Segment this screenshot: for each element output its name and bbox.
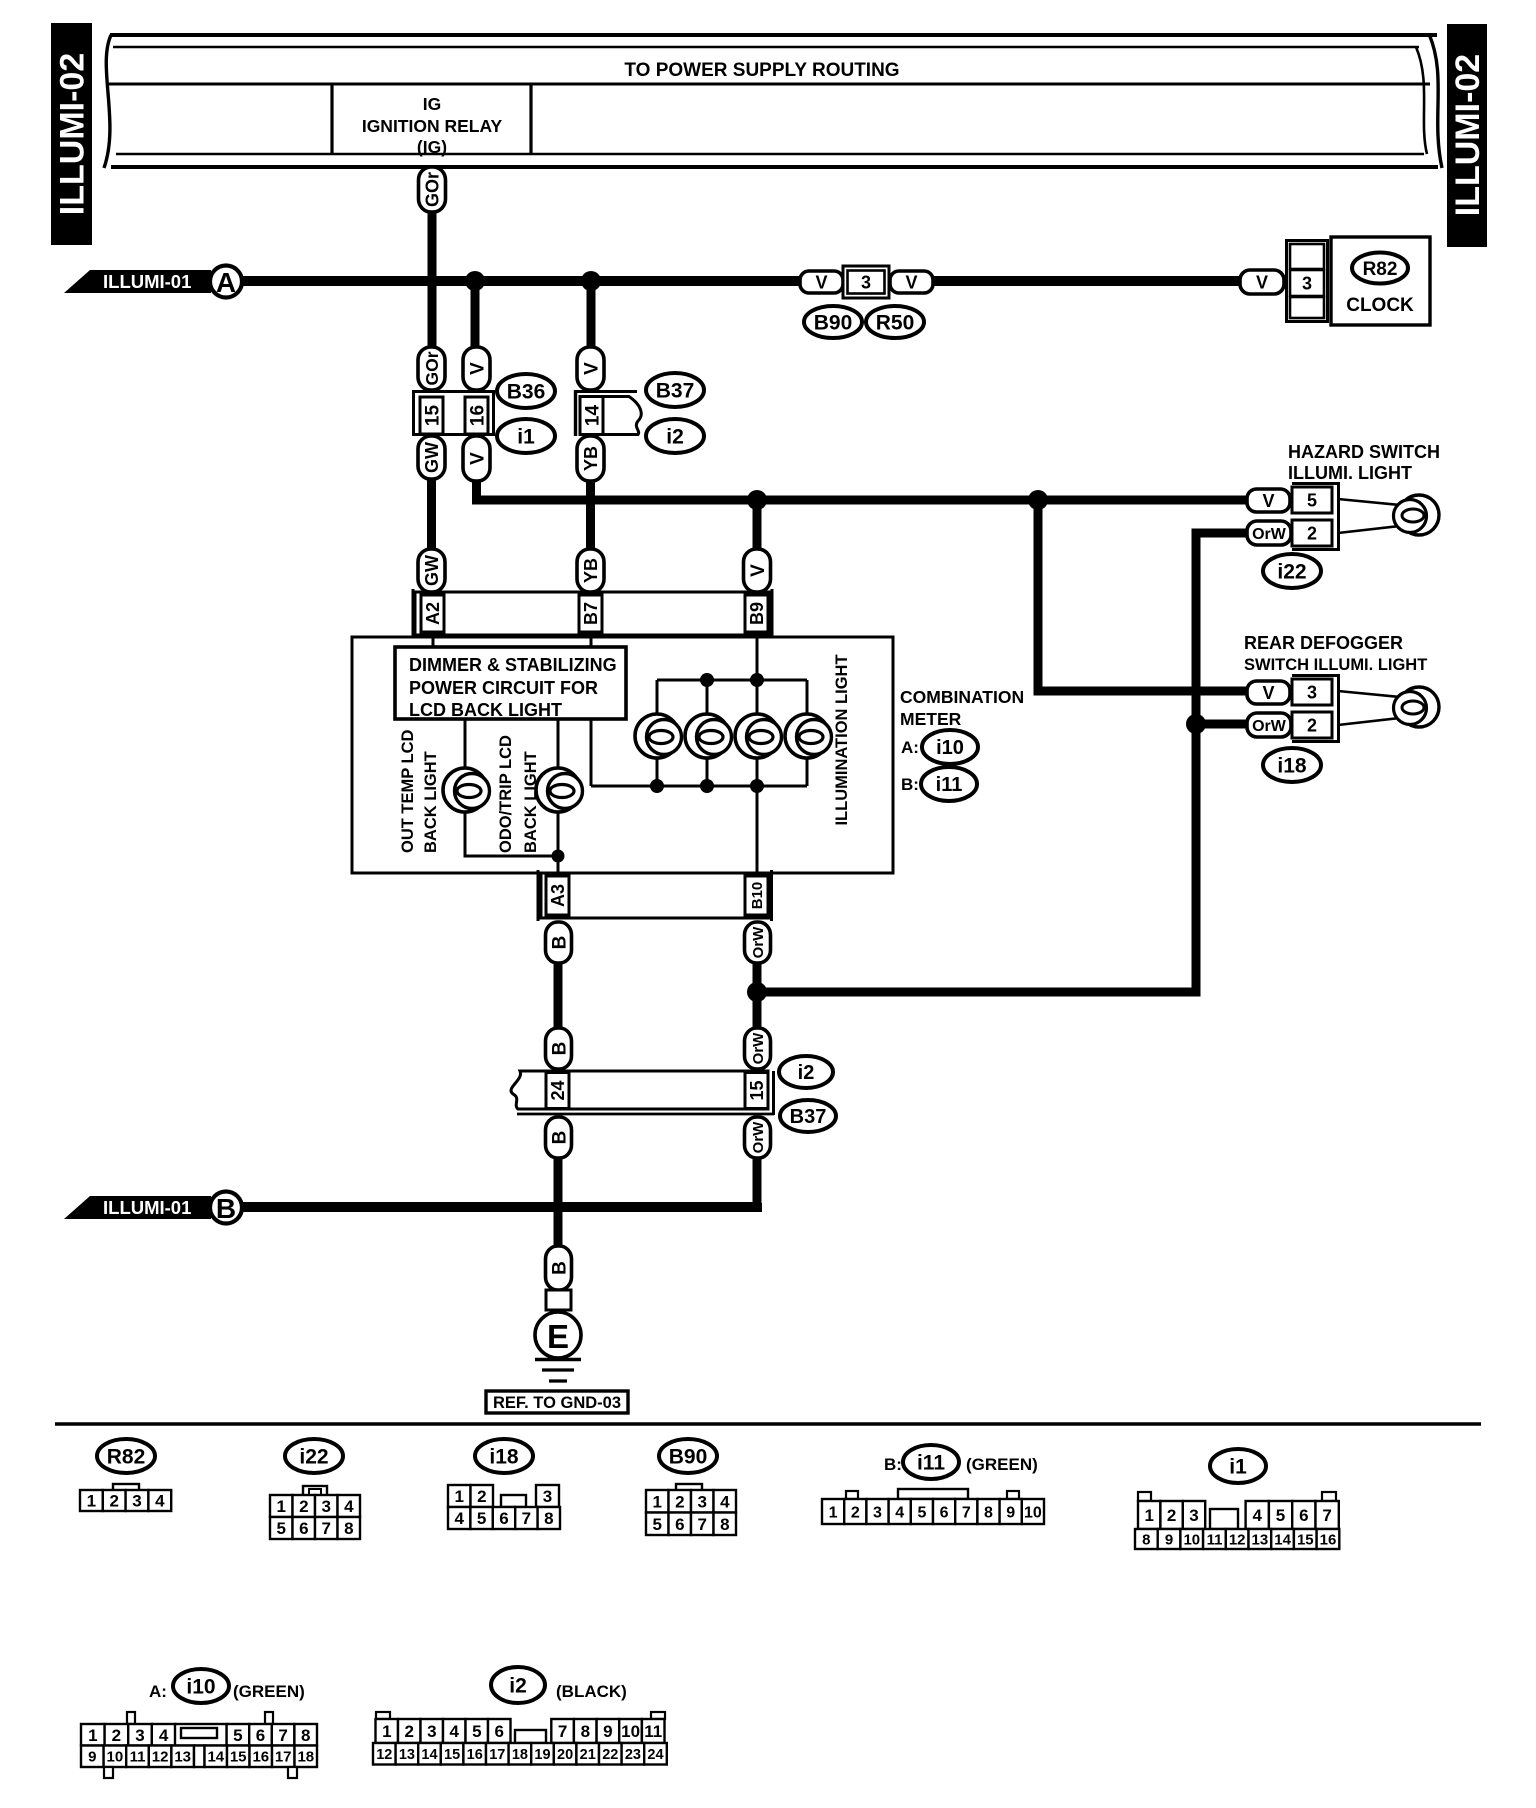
lamp illumination 4	[785, 714, 832, 758]
svg-text:V: V	[467, 452, 488, 465]
svg-text:R82: R82	[1363, 259, 1398, 280]
svg-text:3: 3	[1189, 1506, 1198, 1525]
wire illumination lamp 1 leads	[656, 680, 659, 786]
svg-text:ILLUMI-01: ILLUMI-01	[103, 271, 191, 292]
svg-text:(IG): (IG)	[417, 137, 447, 157]
svg-text:2: 2	[851, 1504, 860, 1521]
ground symbol	[535, 1360, 581, 1382]
svg-text:A: A	[216, 267, 236, 298]
svg-text:3: 3	[697, 1492, 706, 1511]
svg-text:6: 6	[299, 1519, 308, 1538]
svg-text:2: 2	[299, 1497, 308, 1516]
page title bar left ILLUMI-02	[51, 23, 92, 245]
svg-text:2: 2	[477, 1487, 486, 1506]
svg-text:11: 11	[644, 1722, 662, 1741]
connector id oval R82 at clock	[1352, 253, 1408, 284]
connector i2/B37 body (torn edge)	[511, 1071, 774, 1115]
svg-text:B37: B37	[790, 1106, 827, 1128]
wire V stub from bus A to B36 pin 16	[471, 281, 480, 352]
svg-text:2: 2	[1307, 523, 1317, 543]
svg-text:8: 8	[344, 1519, 353, 1538]
wire OrW down to bus B	[753, 1158, 762, 1207]
pin 3 of defogger connector	[1292, 679, 1332, 705]
lamp hazard switch illumination	[1394, 495, 1440, 535]
svg-text:14: 14	[582, 405, 603, 427]
wire bus A from flag to connector B90	[242, 276, 801, 286]
svg-text:B:: B:	[901, 775, 919, 794]
ignition relay segment IG	[332, 84, 531, 157]
wire pin B9 to illumination lamps	[756, 635, 759, 682]
svg-text:5: 5	[1276, 1506, 1285, 1525]
svg-text:(GREEN): (GREEN)	[966, 1455, 1038, 1474]
svg-text:METER: METER	[900, 709, 962, 729]
wire OrW bus to switch illumination lights	[757, 533, 1248, 992]
svg-text:R82: R82	[107, 1446, 146, 1469]
svg-text:22: 22	[602, 1747, 618, 1763]
svg-text:9: 9	[88, 1749, 96, 1766]
connector id oval B90	[804, 306, 862, 338]
svg-text:3: 3	[132, 1492, 141, 1511]
connector id oval i22	[1263, 554, 1321, 588]
junction on bus A at x475	[465, 271, 485, 291]
junction top bus lamp3 feed B9	[750, 673, 764, 687]
connector pinout i11 (meter B)	[884, 1455, 1038, 1474]
svg-text:3: 3	[427, 1722, 436, 1741]
connector id oval B37 lower	[780, 1100, 836, 1132]
illumination lamp bottom bus	[591, 785, 807, 788]
svg-text:i18: i18	[1277, 755, 1307, 778]
connector pinout i2 (black)	[491, 1667, 545, 1703]
svg-text:6: 6	[499, 1509, 508, 1528]
svg-text:BACK LIGHT: BACK LIGHT	[422, 751, 440, 853]
svg-text:1: 1	[87, 1492, 96, 1511]
svg-text:4: 4	[344, 1497, 354, 1516]
svg-text:B37: B37	[656, 380, 695, 403]
svg-text:8: 8	[581, 1722, 590, 1741]
svg-text:3: 3	[543, 1487, 552, 1506]
svg-text:6: 6	[940, 1504, 949, 1521]
svg-text:B9: B9	[747, 602, 767, 625]
pin B9 of meter connector	[745, 595, 768, 632]
wire colour label OrW at defogger pin 2	[1247, 713, 1291, 737]
svg-text:15: 15	[747, 1080, 767, 1100]
svg-text:10: 10	[107, 1749, 124, 1766]
connector id oval B37	[646, 373, 704, 407]
svg-text:7: 7	[962, 1504, 971, 1521]
page title bar right ILLUMI-02	[1447, 24, 1487, 247]
wire colour label YB below B37 pin 14	[577, 436, 604, 481]
svg-text:1: 1	[1144, 1506, 1153, 1525]
junction OrW branch to rear defogger	[1186, 714, 1206, 734]
svg-text:2: 2	[112, 1726, 121, 1745]
svg-text:11: 11	[1207, 1531, 1223, 1548]
flag ILLUMI-01 node A	[64, 266, 242, 299]
wire V stub from bus A to B37 pin 14	[587, 281, 596, 352]
svg-text:5: 5	[652, 1515, 661, 1534]
connector row meter A3-B10	[538, 870, 772, 921]
wire B10 return from bottom bus	[756, 786, 759, 873]
wire colour label V at clock	[1240, 270, 1284, 294]
svg-text:2: 2	[675, 1492, 684, 1511]
svg-text:A3: A3	[548, 884, 568, 907]
svg-text:V: V	[905, 272, 917, 292]
wire OrW branch to rear defogger	[1196, 720, 1248, 729]
pin A2 of meter connector	[421, 595, 444, 632]
svg-text:i1: i1	[1229, 1456, 1247, 1479]
junction OrW bus	[747, 982, 767, 1002]
wire dimmer output to odo-trip lcd back light	[557, 719, 560, 873]
pin B7 of meter connector	[579, 595, 602, 632]
svg-text:3: 3	[135, 1726, 144, 1745]
svg-text:B: B	[549, 1261, 570, 1275]
connector id oval i2	[646, 419, 704, 453]
svg-text:GOr: GOr	[422, 172, 442, 207]
svg-text:V: V	[1256, 272, 1268, 292]
svg-text:SWITCH ILLUMI. LIGHT: SWITCH ILLUMI. LIGHT	[1244, 656, 1427, 674]
svg-text:COMBINATION: COMBINATION	[900, 687, 1024, 707]
svg-text:4: 4	[449, 1722, 459, 1741]
wire colour label OrW at hazard pin 2	[1247, 521, 1291, 545]
svg-text:V: V	[748, 564, 769, 577]
svg-text:i2: i2	[798, 1062, 815, 1084]
svg-text:i1: i1	[517, 426, 535, 449]
svg-text:REF. TO GND-03: REF. TO GND-03	[493, 1394, 621, 1412]
svg-text:8: 8	[1142, 1531, 1150, 1548]
wire pin A2 into dimmer circuit	[432, 635, 435, 648]
lamp odo/trip lcd back light	[536, 768, 583, 812]
svg-text:9: 9	[1165, 1531, 1173, 1548]
svg-text:B90: B90	[814, 312, 853, 335]
wire colour label OrW below meter pin B10	[745, 922, 771, 963]
svg-text:DIMMER & STABILIZING: DIMMER & STABILIZING	[409, 655, 617, 675]
terminal GOr at ignition relay output	[419, 167, 446, 212]
connector rear defogger body	[1292, 676, 1339, 742]
svg-text:GW: GW	[422, 555, 442, 586]
connector id oval i2 lower	[779, 1056, 833, 1088]
svg-text:3: 3	[873, 1504, 882, 1521]
svg-text:A:: A:	[901, 738, 919, 757]
pin 15 of connector B36	[420, 397, 443, 434]
svg-text:R50: R50	[876, 312, 915, 335]
svg-text:5: 5	[1307, 490, 1317, 510]
pin 24 of connector i2/B37	[546, 1073, 569, 1109]
junction top bus lamp2	[700, 673, 714, 687]
wire colour label B below i2 pin 24	[546, 1117, 572, 1158]
svg-text:7: 7	[278, 1726, 287, 1745]
svg-text:3: 3	[1302, 273, 1312, 293]
wire colour label B at ground	[546, 1246, 572, 1290]
svg-text:YB: YB	[581, 558, 601, 583]
label REF. TO GND-03	[486, 1391, 628, 1413]
svg-text:5: 5	[917, 1504, 926, 1521]
svg-text:4: 4	[159, 1726, 169, 1745]
label OUT TEMP LCD BACK LIGHT	[399, 729, 440, 853]
svg-text:14: 14	[421, 1747, 437, 1763]
combination meter box	[352, 637, 893, 873]
svg-text:15: 15	[1297, 1531, 1314, 1548]
svg-text:ODO/TRIP LCD: ODO/TRIP LCD	[497, 735, 515, 853]
svg-text:2: 2	[1167, 1506, 1176, 1525]
svg-text:10: 10	[1024, 1504, 1042, 1521]
svg-text:E: E	[547, 1318, 569, 1355]
svg-text:i2: i2	[509, 1675, 527, 1698]
svg-text:OrW: OrW	[750, 926, 767, 959]
svg-text:15: 15	[444, 1747, 460, 1763]
wire dimmer output to out-temp lcd back light	[464, 719, 467, 772]
junction V bus to meter pin B9	[747, 490, 767, 510]
svg-text:GOr: GOr	[422, 351, 442, 385]
label COMBINATION METER	[900, 687, 1024, 794]
svg-text:ILLUMI-02: ILLUMI-02	[54, 53, 92, 215]
svg-text:OrW: OrW	[1252, 526, 1287, 543]
ground eyelet terminal	[546, 1290, 571, 1310]
svg-text:V: V	[815, 272, 827, 292]
svg-text:B10: B10	[749, 882, 766, 910]
svg-text:7: 7	[321, 1519, 330, 1538]
connector id oval i18	[1263, 748, 1321, 782]
svg-text:18: 18	[297, 1749, 314, 1766]
svg-text:13: 13	[1252, 1531, 1269, 1548]
svg-text:A2: A2	[423, 602, 443, 625]
svg-text:1: 1	[88, 1726, 97, 1745]
svg-text:ILLUMI-01: ILLUMI-01	[103, 1197, 191, 1218]
svg-text:2: 2	[1307, 715, 1317, 735]
svg-text:24: 24	[548, 1080, 568, 1100]
svg-text:5: 5	[477, 1509, 486, 1528]
svg-text:16: 16	[252, 1749, 269, 1766]
svg-text:13: 13	[399, 1747, 415, 1763]
pin 16 of connector B36	[465, 397, 488, 434]
wire colour label GOr above B36 pin 15	[418, 347, 445, 390]
svg-text:15: 15	[422, 405, 443, 427]
svg-text:ILLUMINATION LIGHT: ILLUMINATION LIGHT	[833, 654, 851, 825]
svg-text:(BLACK): (BLACK)	[556, 1682, 627, 1701]
svg-text:i10: i10	[936, 737, 964, 759]
wire colour label V at hazard pin 5	[1247, 489, 1290, 512]
wire colour label GW below B36 pin 15	[418, 436, 445, 479]
wire hazard lamp leads	[1338, 499, 1400, 533]
svg-text:8: 8	[301, 1726, 310, 1745]
clock connector pin column	[1287, 241, 1328, 322]
svg-text:POWER CIRCUIT FOR: POWER CIRCUIT FOR	[409, 678, 598, 698]
svg-text:IG: IG	[423, 94, 441, 114]
svg-text:TO POWER SUPPLY ROUTING: TO POWER SUPPLY ROUTING	[624, 60, 899, 81]
svg-text:14: 14	[207, 1749, 224, 1766]
lamp illumination 1	[635, 714, 682, 758]
wire dimmer return to lamp low-side bus	[590, 719, 593, 786]
wire colour label YB at meter pin B7	[577, 549, 604, 592]
svg-text:A:: A:	[149, 1682, 167, 1701]
svg-text:B: B	[549, 936, 570, 950]
wire colour label V at B90	[800, 271, 843, 293]
svg-text:B:: B:	[884, 1455, 902, 1474]
svg-text:8: 8	[544, 1509, 553, 1528]
svg-text:HAZARD SWITCH: HAZARD SWITCH	[1288, 442, 1440, 462]
svg-text:16: 16	[1320, 1531, 1337, 1548]
wire out-temp lamp to junction	[465, 812, 556, 856]
svg-text:10: 10	[1183, 1531, 1200, 1548]
wire GOr from ignition relay	[428, 167, 437, 352]
svg-text:REAR DEFOGGER: REAR DEFOGGER	[1244, 633, 1403, 653]
ground point E	[535, 1312, 581, 1358]
junction bottom bus to B10	[750, 779, 764, 793]
pin 15 of connector i2/B37	[745, 1073, 768, 1109]
connector B37 body (torn edge)	[574, 390, 641, 436]
svg-text:5: 5	[472, 1722, 481, 1741]
connector pinout i22	[285, 1439, 343, 1473]
svg-text:17: 17	[489, 1747, 505, 1763]
svg-text:i18: i18	[489, 1446, 519, 1469]
svg-text:14: 14	[1274, 1531, 1291, 1548]
wire bus A from connector R50 to clock	[932, 276, 1242, 286]
wire YB from B37 to meter pin B7	[586, 481, 595, 552]
svg-text:9: 9	[603, 1722, 612, 1741]
connector hazard switch body	[1292, 484, 1339, 550]
connector row meter A2-B7-B9	[413, 589, 772, 638]
svg-text:3: 3	[861, 272, 871, 292]
svg-text:V: V	[1262, 491, 1274, 511]
wire illumination lamp 3 leads	[756, 680, 759, 786]
junction on bus A at x591	[581, 271, 601, 291]
svg-text:7: 7	[697, 1515, 706, 1534]
svg-text:11: 11	[130, 1749, 146, 1766]
svg-text:4: 4	[720, 1492, 730, 1511]
label HAZARD SWITCH ILLUMI. LIGHT	[1288, 442, 1440, 483]
flag ILLUMI-01 node B	[64, 1192, 242, 1225]
svg-text:4: 4	[454, 1509, 464, 1528]
svg-text:19: 19	[534, 1747, 550, 1763]
svg-text:24: 24	[647, 1747, 663, 1763]
wire colour label V below B36 pin 16	[463, 436, 490, 481]
svg-text:B7: B7	[581, 602, 601, 625]
wire colour label OrW below i2 pin 15	[745, 1117, 771, 1158]
svg-text:V: V	[467, 362, 488, 375]
svg-text:16: 16	[467, 1747, 483, 1763]
svg-text:i10: i10	[186, 1676, 215, 1699]
svg-text:2: 2	[109, 1492, 118, 1511]
svg-text:i22: i22	[1277, 561, 1306, 584]
svg-text:10: 10	[621, 1722, 640, 1741]
pin 14 of connector B37	[580, 397, 603, 435]
svg-text:(GREEN): (GREEN)	[233, 1682, 305, 1701]
svg-text:4: 4	[155, 1492, 165, 1511]
svg-text:1: 1	[382, 1722, 391, 1741]
svg-text:6: 6	[256, 1726, 265, 1745]
svg-text:OUT TEMP LCD: OUT TEMP LCD	[399, 729, 417, 853]
wire colour label V at meter pin B9	[744, 549, 771, 592]
svg-text:17: 17	[275, 1749, 292, 1766]
svg-text:1: 1	[276, 1497, 285, 1516]
illumination lamp top bus	[657, 679, 807, 682]
label ODO/TRIP LCD BACK LIGHT	[497, 735, 540, 853]
connector id oval B36	[497, 374, 555, 408]
connector pinout i1	[1210, 1449, 1266, 1483]
connector id oval i11 for meter B	[921, 767, 977, 801]
connector id oval i1	[497, 419, 555, 453]
svg-text:7: 7	[558, 1722, 567, 1741]
label REAR DEFOGGER SWITCH ILLUMI. LIGHT	[1244, 633, 1427, 674]
wire illumination lamp 2 leads	[706, 680, 709, 786]
wire colour label B below meter pin A3	[546, 922, 572, 963]
wire GW from B36 to meter pin A2	[427, 479, 436, 552]
wire colour label V above B36 pin 16	[463, 347, 490, 390]
lamp illumination 2	[685, 714, 732, 758]
svg-text:21: 21	[580, 1747, 596, 1763]
wire colour label OrW above i2 pin 15	[745, 1028, 771, 1069]
svg-text:B: B	[549, 1042, 570, 1056]
svg-text:15: 15	[230, 1749, 247, 1766]
wire bus B	[242, 1203, 757, 1207]
separator line above connector pinouts	[55, 1422, 1481, 1426]
lamp illumination 3	[735, 714, 782, 758]
svg-text:9: 9	[1006, 1504, 1015, 1521]
pin 5 of hazard switch connector	[1292, 487, 1332, 513]
svg-text:OrW: OrW	[750, 1032, 767, 1065]
clock unit box	[1331, 237, 1430, 325]
svg-text:3: 3	[321, 1497, 330, 1516]
svg-text:6: 6	[494, 1722, 503, 1741]
pin 2 of defogger connector	[1292, 712, 1332, 738]
dimmer and stabilizing power circuit block	[395, 647, 626, 720]
svg-text:20: 20	[557, 1747, 573, 1763]
svg-text:8: 8	[720, 1515, 729, 1534]
svg-text:ILLUMI-02: ILLUMI-02	[1449, 54, 1487, 216]
svg-text:OrW: OrW	[750, 1121, 767, 1154]
wire B down to ground eyelet	[554, 1158, 563, 1248]
svg-text:IGNITION RELAY: IGNITION RELAY	[362, 116, 503, 136]
svg-text:i22: i22	[299, 1446, 328, 1469]
svg-text:V: V	[1262, 683, 1274, 703]
svg-text:7: 7	[1322, 1506, 1331, 1525]
wire V bus to hazard switch	[477, 481, 1249, 500]
pin 3 inline connector B90/R50	[843, 266, 889, 298]
svg-text:B90: B90	[669, 1446, 708, 1469]
connector pinout i10 (meter A)	[149, 1682, 305, 1701]
svg-text:OrW: OrW	[1252, 718, 1287, 735]
connector pinout R82	[97, 1439, 155, 1473]
lamp out temp lcd back light	[443, 768, 490, 812]
wire B from meter A3 down	[554, 963, 563, 1032]
svg-text:YB: YB	[581, 446, 601, 471]
wire colour label V at defogger pin 3	[1247, 681, 1290, 704]
svg-text:12: 12	[1229, 1531, 1246, 1548]
svg-text:LCD BACK LIGHT: LCD BACK LIGHT	[409, 700, 562, 720]
svg-text:3: 3	[1307, 682, 1317, 702]
wire V branch to rear defogger	[1038, 500, 1248, 691]
wire pin B7 into dimmer circuit	[590, 635, 593, 648]
wire illumination lamp 4 leads	[806, 680, 809, 786]
svg-text:5: 5	[233, 1726, 242, 1745]
svg-text:V: V	[581, 362, 602, 375]
connector pinout B90	[659, 1439, 717, 1473]
svg-text:CLOCK: CLOCK	[1346, 295, 1414, 316]
connector B36 body	[414, 392, 494, 435]
svg-text:7: 7	[522, 1509, 531, 1528]
wire colour label B above i2 pin 24	[546, 1028, 572, 1069]
svg-text:12: 12	[376, 1747, 392, 1763]
svg-text:i11: i11	[936, 774, 963, 796]
wire OrW from meter B10 down	[753, 963, 762, 1032]
pin B10 of meter connector	[745, 876, 768, 915]
lamp rear defogger switch illumination	[1394, 687, 1440, 727]
svg-text:BACK LIGHT: BACK LIGHT	[522, 751, 540, 853]
connector id oval i10 for meter A	[922, 730, 978, 764]
svg-text:i2: i2	[666, 426, 684, 449]
svg-text:23: 23	[625, 1747, 641, 1763]
svg-text:4: 4	[1252, 1506, 1262, 1525]
svg-text:B36: B36	[507, 381, 546, 404]
wire colour label V at R50	[890, 271, 933, 293]
